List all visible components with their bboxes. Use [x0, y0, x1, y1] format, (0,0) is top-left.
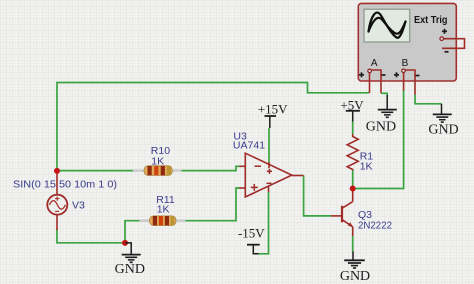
svg-text:+15V: +15V — [258, 102, 288, 117]
svg-text:UA741: UA741 — [233, 140, 265, 152]
svg-text:GND: GND — [340, 269, 370, 284]
svg-text:-15V: -15V — [238, 225, 265, 240]
svg-text:GND: GND — [115, 262, 145, 277]
svg-text:1K: 1K — [360, 160, 373, 172]
svg-text:B: B — [402, 58, 409, 69]
svg-text:GND: GND — [428, 123, 458, 138]
svg-text:Ext Trig: Ext Trig — [414, 15, 448, 26]
svg-text:A: A — [371, 58, 378, 69]
svg-text:V3: V3 — [72, 199, 85, 211]
svg-text:+5V: +5V — [340, 98, 364, 113]
svg-text:2N2222: 2N2222 — [358, 219, 392, 231]
svg-text:SIN(0 15 50 10m 1 0): SIN(0 15 50 10m 1 0) — [13, 178, 117, 190]
svg-text:GND: GND — [366, 119, 396, 134]
svg-text:1K: 1K — [151, 155, 164, 167]
svg-text:1K: 1K — [157, 204, 170, 216]
